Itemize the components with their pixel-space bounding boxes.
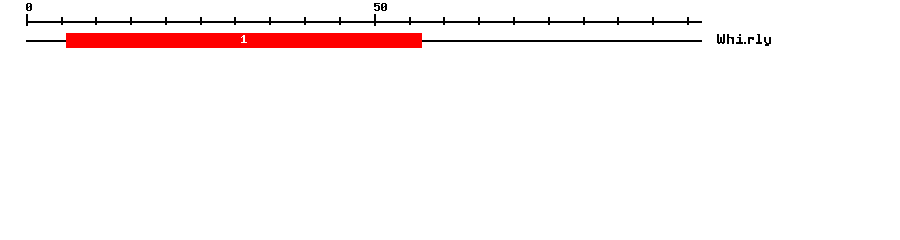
- ruler left end tick (position 0): [26, 14, 28, 26]
- ruler label 0: [26, 3, 32, 11]
- feature name label Whirly: [717, 34, 771, 46]
- white numeral 1 inside bar: [241, 35, 247, 43]
- red feature bar: [66, 33, 422, 48]
- ruler label 50: [374, 3, 387, 11]
- ruler axis line: [26, 21, 702, 23]
- ruler minor ticks every 5 units: [61, 17, 689, 25]
- feature track baseline wire: [26, 40, 702, 42]
- ruler major tick (position 50): [374, 14, 376, 26]
